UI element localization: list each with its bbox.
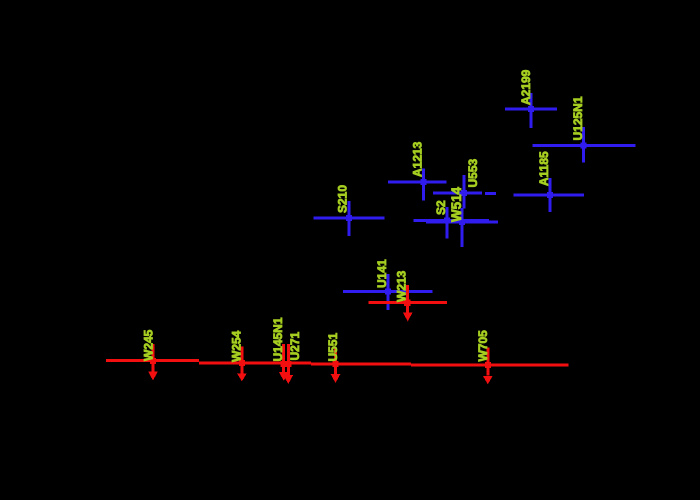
upper-limit arrow W705 [483, 347, 493, 384]
data point A1213 (blue error-bar cross) [388, 169, 447, 201]
upper-limit arrow U271 [284, 344, 294, 384]
data point A2199 (blue error-bar cross) [505, 93, 557, 128]
data point U553 (blue error-bar cross) [433, 175, 496, 209]
svg-text:W213: W213 [395, 270, 409, 302]
upper-limit W245 (red bar with down arrow) [106, 344, 199, 381]
upper-limit arrow U145N1 [279, 344, 289, 381]
data point W514 (blue error-bar cross) [426, 208, 498, 247]
upper-limit arrow W254 [237, 347, 247, 382]
data point U125N1 (blue error-bar cross) [533, 127, 636, 163]
data point U141 (blue error-bar cross) [343, 274, 433, 310]
svg-text:U141: U141 [375, 259, 389, 288]
svg-text:S210: S210 [336, 185, 350, 213]
svg-text:U551: U551 [326, 332, 340, 361]
svg-text:A1185: A1185 [537, 151, 551, 186]
svg-text:W705: W705 [476, 330, 490, 362]
svg-text:W245: W245 [142, 329, 156, 361]
svg-text:A2199: A2199 [519, 69, 533, 105]
upper-limit arrow U551 [331, 348, 341, 383]
svg-text:W254: W254 [230, 330, 244, 362]
long red horizontal limit bar [199, 361, 311, 364]
svg-text:S2: S2 [434, 200, 448, 215]
data point S2 (blue error-bar cross) [414, 207, 490, 239]
svg-text:U271: U271 [288, 331, 302, 360]
svg-text:W514: W514 [449, 186, 464, 222]
data point W213 (red cross with down arrow, upper limit) [368, 285, 447, 322]
svg-text:U553: U553 [466, 158, 480, 187]
svg-text:U125N1: U125N1 [571, 96, 585, 140]
data point S210 (blue error-bar cross) [314, 201, 385, 236]
svg-text:U145N1: U145N1 [271, 317, 285, 361]
data point A1185 (blue error-bar cross) [513, 178, 584, 212]
svg-text:A1213: A1213 [411, 141, 425, 177]
